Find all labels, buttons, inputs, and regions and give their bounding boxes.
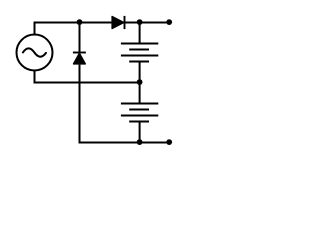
battery B1 (121, 44, 158, 62)
node D junction dot (137, 139, 143, 145)
wire: battery B2 bottom plate down to node D (139, 122, 141, 143)
wire: AC source top to top-left corner to node A (35, 23, 80, 35)
wire: node D to negative output terminal (140, 142, 170, 144)
wire: AC source bottom to middle corner then right to node C (35, 71, 140, 83)
negative output terminal (166, 139, 172, 145)
diode D1 (73, 53, 86, 64)
wire: node A down to diode D1 cathode (79, 23, 81, 53)
node C junction dot (137, 79, 143, 85)
wire: node B to positive output terminal (140, 22, 170, 24)
diode D2 (112, 16, 124, 29)
wire: diode D1 anode down past crossover to bottom-left corner then right to node D (80, 65, 140, 143)
wire: node A to diode D2 anode (80, 22, 113, 24)
battery B2 (121, 104, 158, 122)
positive output terminal (166, 19, 172, 25)
node B junction dot (137, 19, 143, 25)
ac source V1 (17, 35, 53, 71)
wire: node B down to battery B1 top plate (139, 23, 141, 44)
wire: battery B1 bottom plate through node C to battery B2 top plate (139, 62, 141, 104)
wire: diode D2 cathode to node B (125, 22, 140, 24)
node A junction dot (77, 19, 83, 25)
